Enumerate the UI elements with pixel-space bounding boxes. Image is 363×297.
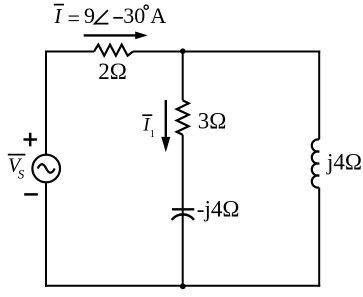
resistor 3ohm (vertical zigzag) (177, 100, 189, 134)
capacitor C top plate (172, 208, 194, 210)
wire top-middle segment (133, 51, 183, 53)
svg-text:S: S (18, 167, 25, 182)
wire right lower segment (318, 188, 320, 287)
angle symbol (95, 10, 109, 24)
sine wave inside source (38, 164, 55, 173)
wire top-left segment (46, 51, 94, 53)
svg-text:j4Ω: j4Ω (326, 149, 362, 174)
svg-text:3Ω: 3Ω (198, 109, 227, 134)
svg-text:A: A (150, 3, 166, 28)
current arrow I (top, pointing right) (84, 32, 148, 40)
degree circle (144, 5, 148, 9)
source Vs (ac source circle) (32, 155, 60, 183)
current arrow I1 (middle, pointing down) (161, 100, 170, 152)
wire middle upper segment (182, 52, 184, 101)
svg-text:I: I (53, 4, 62, 28)
overbar of I (54, 4, 64, 6)
node junction dot top (180, 48, 186, 54)
minus sign (24, 193, 38, 196)
wire bottom (45, 285, 320, 287)
wire middle lower segment (182, 135, 184, 286)
minus sign (113, 17, 123, 19)
wire left upper segment (45, 51, 47, 156)
label I1 (142, 114, 155, 140)
wire right upper segment (318, 51, 320, 140)
svg-text:1: 1 (150, 129, 155, 140)
svg-text:30: 30 (123, 3, 145, 28)
svg-text:2Ω: 2Ω (98, 59, 127, 84)
node junction dot bottom (180, 283, 186, 289)
plus sign (24, 133, 38, 147)
resistor R 2ohm (zigzag) (94, 45, 133, 56)
capacitor C curved bottom plate (172, 214, 194, 220)
wire top-right segment (183, 51, 321, 53)
label I = 9 angle -30 A (53, 3, 166, 30)
svg-text:-j4Ω: -j4Ω (197, 197, 240, 222)
label Vs (8, 155, 26, 182)
svg-text:=: = (68, 5, 80, 30)
inductor L j4ohm (4 loops) (312, 139, 319, 187)
wire left lower segment (45, 182, 47, 286)
